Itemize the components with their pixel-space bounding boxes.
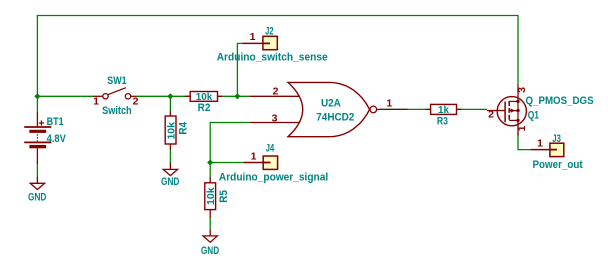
op-amp U2A body (NOR gate) bbox=[288, 82, 370, 136]
pin 2 bbox=[131, 95, 136, 97]
drain link (bottom) bbox=[509, 119, 518, 121]
svg-text:10k: 10k bbox=[167, 122, 178, 140]
wire: battery negative to GND bbox=[36, 162, 38, 178]
svg-text:2: 2 bbox=[133, 95, 139, 107]
internal vertical bbox=[517, 101, 519, 120]
NOR gate U2A pin 1 (output) bbox=[377, 108, 408, 110]
junction node: J2/main net bbox=[234, 93, 240, 99]
bulk line with arrow bbox=[509, 110, 518, 112]
svg-text:J2: J2 bbox=[265, 25, 274, 37]
connector J4 bbox=[244, 156, 278, 169]
svg-text:R4: R4 bbox=[178, 121, 190, 134]
svg-text:1: 1 bbox=[250, 31, 256, 43]
top pin (source, 3) bbox=[517, 85, 519, 102]
svg-text:3: 3 bbox=[272, 113, 278, 125]
svg-text:SW1: SW1 bbox=[107, 75, 126, 87]
svg-text:J3: J3 bbox=[552, 133, 561, 145]
svg-text:GND: GND bbox=[201, 245, 219, 257]
ground (R5) bbox=[203, 230, 217, 243]
resistor R3 bbox=[426, 104, 462, 114]
ground (R4) bbox=[163, 163, 177, 176]
ground (battery) bbox=[30, 177, 44, 190]
svg-text:1: 1 bbox=[251, 150, 257, 162]
battery BT1 bbox=[24, 112, 51, 164]
wire: gate input 3 net to J4/R5 junction bbox=[210, 123, 250, 178]
svg-text:U2A: U2A bbox=[321, 98, 341, 110]
connector J3 bbox=[531, 143, 564, 156]
svg-text:4.8V: 4.8V bbox=[47, 133, 67, 145]
svg-text:Switch: Switch bbox=[102, 105, 132, 117]
NOR gate U2A pin 3 bbox=[250, 122, 299, 124]
body circle bbox=[497, 97, 526, 126]
wire: top rail from battery up, across, down to Q1 source bbox=[37, 16, 518, 97]
junction node: J4/R5 bbox=[207, 159, 213, 165]
svg-text:2: 2 bbox=[273, 85, 279, 97]
pin 1 bbox=[93, 95, 103, 97]
svg-text:74HCD2: 74HCD2 bbox=[316, 112, 354, 124]
resistor R2 bbox=[185, 92, 222, 102]
junction node: R4/main net bbox=[167, 93, 173, 99]
svg-text:1: 1 bbox=[516, 125, 528, 131]
NOR gate U2A pin 2 bbox=[250, 95, 299, 97]
wire: Q1 drain to J3 bbox=[518, 133, 531, 150]
lever bbox=[108, 88, 126, 95]
svg-text:GND: GND bbox=[161, 176, 179, 188]
svg-text:R3: R3 bbox=[437, 116, 448, 128]
wire: R4 bottom to GND bbox=[169, 150, 171, 165]
bottom pin (drain, 1) bbox=[517, 120, 519, 135]
svg-text:1: 1 bbox=[386, 97, 392, 109]
connector J2 bbox=[242, 36, 277, 49]
svg-text:R5: R5 bbox=[218, 190, 230, 203]
svg-text:1: 1 bbox=[93, 95, 99, 107]
resistor R4 bbox=[165, 111, 176, 150]
source link (top) bbox=[509, 100, 518, 102]
wire: R5 bottom to GND bbox=[209, 217, 211, 230]
junction node: battery/main net bbox=[34, 93, 40, 99]
resistor R5 bbox=[205, 177, 216, 218]
wire: J2 branch down to main net bbox=[237, 43, 242, 96]
wire: switch pin 2 to R2 to gate input 2 bbox=[136, 95, 250, 97]
transistor Q1 (PMOS) bbox=[487, 85, 526, 136]
svg-text:1k: 1k bbox=[438, 105, 449, 116]
svg-text:R2: R2 bbox=[198, 102, 211, 114]
channel segments bbox=[508, 101, 510, 106]
svg-text:10k: 10k bbox=[206, 187, 217, 205]
svg-text:Arduino_switch_sense: Arduino_switch_sense bbox=[217, 51, 328, 63]
svg-text:Power_out: Power_out bbox=[533, 159, 583, 171]
svg-text:Q_PMOS_DGS: Q_PMOS_DGS bbox=[526, 95, 594, 107]
wire: battery to switch pin 1 bbox=[37, 95, 93, 97]
svg-text:3: 3 bbox=[516, 87, 528, 93]
wire: R4 branch down from main net bbox=[169, 96, 171, 111]
svg-text:1: 1 bbox=[537, 137, 543, 149]
gate bar bbox=[497, 110, 505, 112]
svg-text:J4: J4 bbox=[266, 142, 275, 154]
wire: battery positive stub bbox=[36, 96, 38, 112]
internal junction dots (Q1) bbox=[516, 100, 519, 103]
wire: gate output to R3 to Q1 gate bbox=[380, 108, 487, 110]
gate pin bbox=[487, 110, 500, 112]
svg-text:2: 2 bbox=[488, 109, 494, 121]
wire: junction to J4 pin bbox=[210, 162, 243, 164]
svg-text:Q1: Q1 bbox=[528, 110, 539, 122]
svg-text:GND: GND bbox=[28, 191, 46, 203]
NOR gate output bubble bbox=[370, 106, 377, 113]
svg-text:10k: 10k bbox=[196, 92, 213, 103]
svg-text:BT1: BT1 bbox=[47, 116, 64, 128]
svg-text:Arduino_power_signal: Arduino_power_signal bbox=[219, 171, 328, 183]
switch SW1 bbox=[93, 88, 136, 99]
